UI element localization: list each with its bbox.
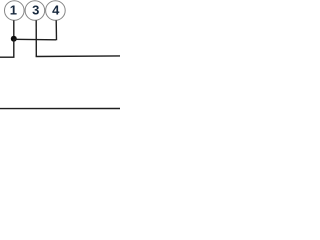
wire: horizontal from junction to pin 4 branch <box>14 38 56 41</box>
svg-text:4: 4 <box>52 2 60 17</box>
pin terminal circle 1 <box>5 1 25 21</box>
pin number label 1 <box>10 2 17 17</box>
svg-text:1: 1 <box>10 2 17 17</box>
pin terminal circle 4 <box>46 1 66 21</box>
pin number label 3 <box>32 2 39 17</box>
wire: junction down to left exit corner <box>13 39 15 57</box>
bottom rail wire (full width) <box>0 108 120 110</box>
pin terminal circle 3 <box>25 1 45 21</box>
wire: pin 3 vertical down (crosses pin1-pin4 wire) <box>35 20 37 56</box>
wire: pin 1 stub down to junction <box>13 20 15 38</box>
junction dot (solder point, node pin1/pin4) <box>11 36 17 42</box>
wire: pin 4 stub down to horizontal <box>55 20 57 40</box>
pin number label 4 <box>52 2 60 17</box>
wire: left exit horizontal (to left edge) <box>0 56 15 58</box>
svg-text:3: 3 <box>32 2 39 17</box>
wire: right exit horizontal (to right edge) <box>36 55 120 58</box>
